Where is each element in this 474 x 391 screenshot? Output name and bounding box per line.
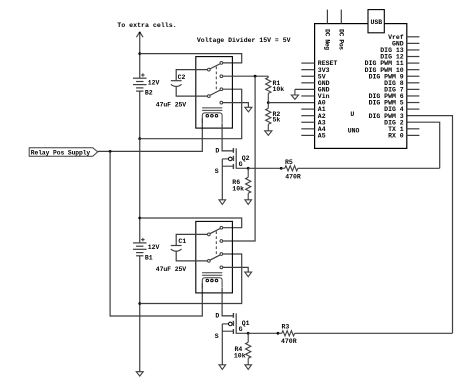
svg-text:10k: 10k xyxy=(232,186,244,193)
pin GND (left 5) wire xyxy=(295,88,315,90)
pin Vin (left 6) stub xyxy=(301,95,314,97)
capacitor C1 curved plate xyxy=(171,249,182,251)
wire junction rail down to K2 T1b xyxy=(223,76,255,241)
ground (R6 bottom) xyxy=(245,200,252,205)
relay K1 contact T1b xyxy=(220,75,223,78)
svg-text:Voltage Divider 15V = 5V: Voltage Divider 15V = 5V xyxy=(197,37,291,44)
svg-text:Q1: Q1 xyxy=(242,320,250,327)
capacitor C1 top plate xyxy=(171,245,182,247)
pin A1 (left 8) stub xyxy=(301,108,314,110)
svg-text:47uF 25V: 47uF 25V xyxy=(156,102,186,109)
relay K1 contact T1a xyxy=(220,62,223,65)
relay K2 contact T1a xyxy=(220,226,223,229)
node: R5 left junction xyxy=(280,167,283,170)
svg-text:RX 0: RX 0 xyxy=(388,132,404,139)
svg-text:Relay Pos Supply: Relay Pos Supply xyxy=(31,149,91,156)
svg-text:Q2: Q2 xyxy=(242,155,250,162)
svg-text:S: S xyxy=(215,333,219,340)
pin GND (left 4) stub xyxy=(301,82,314,84)
svg-text:12V: 12V xyxy=(148,79,160,86)
node: relay pos supply junction xyxy=(109,150,112,153)
wire Q1 source to ground xyxy=(221,324,223,365)
resistor R5 470R xyxy=(281,167,285,169)
arduino UNO U1 body xyxy=(315,24,407,149)
battery B1 12V xyxy=(133,242,147,244)
pin DIG 7 (right 9) stub xyxy=(407,88,420,90)
svg-text:G: G xyxy=(239,161,243,168)
pin A2 (left 9) stub xyxy=(301,115,314,117)
pin DIG PWM 6 (right 10) stub xyxy=(407,95,420,97)
resistor R4 10k xyxy=(247,333,249,342)
relay K1 contact common C2 xyxy=(208,95,211,98)
wire Q1 gate to R3 xyxy=(248,332,278,334)
wire B2- down to B1 + xyxy=(139,139,141,243)
relay K1 contact T2a xyxy=(220,88,223,91)
arrow up (to extra cells) xyxy=(136,32,143,37)
relay K1 contact T2b xyxy=(220,101,223,104)
pin DIG 4 (right 12) stub xyxy=(407,108,420,110)
wire Q2 gate to R5 xyxy=(248,167,281,169)
svg-text:10k: 10k xyxy=(234,352,246,359)
relay K1 box xyxy=(196,57,233,129)
pin GND (right 2) stub xyxy=(407,42,420,44)
relay K2 contact T2b xyxy=(220,266,223,269)
wire battery B1 - down to ground xyxy=(139,256,141,372)
node: battery B2 - junction xyxy=(138,137,141,140)
svg-text:G: G xyxy=(239,326,243,333)
pin DIG PWM 9 (right 7) stub xyxy=(407,75,420,77)
wire rail B1- to relay K2 coil / contact T2a xyxy=(140,254,242,304)
node: Q2 gate junction xyxy=(247,167,250,170)
pin A4 (left 11) stub xyxy=(301,128,314,130)
pin DIG PWM 10 (right 6) stub xyxy=(407,69,420,71)
relay K2 switch arm 1 xyxy=(210,228,221,233)
pin DIG PWM 5 (right 11) stub xyxy=(407,102,420,104)
ground (R2 bottom) xyxy=(265,131,272,136)
relay K1 coil xyxy=(202,107,222,109)
wire K2 T2b to ground xyxy=(223,267,249,272)
pin A5 (left 12) stub xyxy=(301,134,314,136)
capacitor C2 curved plate xyxy=(171,84,182,86)
wire relay pos supply to K1 coil left xyxy=(98,118,203,151)
wire K1 T1b to R1 xyxy=(223,75,269,77)
relay K2 contact T1b xyxy=(220,240,223,243)
svg-text:12V: 12V xyxy=(148,244,160,251)
wire feed to relay K1 contact T1a xyxy=(140,54,242,63)
relay K2 box xyxy=(196,221,233,293)
svg-text:DC Neg: DC Neg xyxy=(324,29,331,50)
arduino DC jack pin (pos) xyxy=(340,10,342,24)
svg-text:470R: 470R xyxy=(285,173,301,180)
pin DIG PWM 11 (right 5) stub xyxy=(407,62,420,64)
ground (battery rail bottom) xyxy=(136,372,143,376)
ground (Q2 source) xyxy=(219,200,226,205)
svg-text:S: S xyxy=(215,168,219,175)
svg-text:USB: USB xyxy=(371,19,383,26)
svg-text:5k: 5k xyxy=(273,117,281,124)
wire K1 T2b to ground xyxy=(223,103,249,108)
svg-text:U: U xyxy=(350,111,354,118)
pin A3 (left 10) stub xyxy=(301,121,314,123)
wire to extra cells (vertical from arrow to battery B2 +) xyxy=(139,32,141,78)
wire DIG 2 to R5 xyxy=(407,122,440,168)
node: R1/R2 junction (A0) xyxy=(267,101,270,104)
svg-text:10k: 10k xyxy=(273,86,285,93)
ground (K2 T2b) xyxy=(245,272,252,277)
node: battery B1 + junction xyxy=(138,217,141,220)
transistor Q1 (MOSFET) xyxy=(232,313,234,318)
resistor R1 10k xyxy=(267,76,269,77)
svg-text:47uF 25V: 47uF 25V xyxy=(156,266,186,273)
relay K2 contact common C2 xyxy=(208,260,211,263)
pin DIG 8 (right 8) stub xyxy=(407,82,420,84)
relay K1 switch arm 2 xyxy=(210,90,221,95)
svg-text:R3: R3 xyxy=(282,323,290,330)
svg-text:D: D xyxy=(215,148,219,155)
node: battery B1 - junction xyxy=(138,302,141,305)
svg-text:UNO: UNO xyxy=(348,128,360,135)
relay K1 contact common C1 xyxy=(208,68,211,71)
svg-text:R5: R5 xyxy=(285,159,293,166)
relay K2 switch arm 2 xyxy=(210,255,221,260)
svg-text:A5: A5 xyxy=(318,133,326,140)
svg-text:To extra cells.: To extra cells. xyxy=(117,22,176,29)
flag label: Relay Pos Supply xyxy=(29,148,98,157)
battery B2 12V xyxy=(133,77,147,79)
relay K2 contact T2a xyxy=(220,253,223,256)
svg-text:470R: 470R xyxy=(281,338,297,345)
resistor R6 10k xyxy=(247,168,249,177)
resistor R3 470R xyxy=(278,332,282,334)
wire relay pos supply rail down to K2 coil left xyxy=(110,151,202,316)
wire K2 common C1 to capacitor C1 + xyxy=(176,234,207,245)
ground (K1 T2b) xyxy=(245,107,252,112)
wire capacitor C2 - to K1 common C2 xyxy=(176,87,207,97)
wire capacitor C1 - to K2 common C2 xyxy=(176,251,207,261)
arduino USB box xyxy=(368,10,384,33)
pin 5V (left 3) stub xyxy=(301,75,314,77)
ground (GND pin) xyxy=(294,89,296,95)
transistor Q2 (MOSFET) xyxy=(232,148,234,153)
svg-text:DC Pos: DC Pos xyxy=(338,29,345,50)
node: battery B2 + junction xyxy=(138,52,141,55)
svg-text:C1: C1 xyxy=(178,238,186,245)
wire K2 coil right to Q1 drain xyxy=(222,288,233,316)
relay K1 switch arm 1 xyxy=(210,64,221,69)
arduino DC jack pin (neg) xyxy=(326,10,328,24)
pin TX 1 (right 15) stub xyxy=(407,128,420,130)
pin Vref (right 1) stub xyxy=(407,36,420,38)
resistor R2 5k xyxy=(267,103,269,109)
node: T1b/R1 junction xyxy=(254,75,257,78)
pin DIG 13 (right 3) stub xyxy=(407,49,420,51)
wire DIG PWM 3 to R3 xyxy=(407,116,453,334)
wire battery B2 - down to node xyxy=(139,91,141,139)
svg-text:B1: B1 xyxy=(145,254,153,261)
svg-text:C2: C2 xyxy=(178,74,186,81)
wire K1 coil right to Q2 drain xyxy=(222,123,233,151)
svg-text:B2: B2 xyxy=(145,90,153,97)
ground (Q1 source) xyxy=(219,365,226,370)
pin RX 0 (right 16) stub xyxy=(407,134,420,136)
wire Q2 source to ground xyxy=(221,159,223,200)
relay K1 link (dashed) xyxy=(215,67,217,93)
wire divider tap to A0 xyxy=(268,102,314,104)
relay K2 coil xyxy=(202,272,222,274)
capacitor C2 top plate xyxy=(171,80,182,82)
wire feed to relay K2 contact T1a xyxy=(140,218,242,228)
pin DIG 12 (right 4) stub xyxy=(407,56,420,58)
ground (R4 bottom) xyxy=(245,365,252,370)
svg-text:D: D xyxy=(215,313,219,320)
relay K2 contact common C1 xyxy=(208,233,211,236)
pin 3V3 (left 2) stub xyxy=(301,69,314,71)
node: Q1 gate junction xyxy=(247,332,250,335)
relay K2 link (dashed) xyxy=(215,231,217,257)
wire rail B2- to relay K1 coil / contact T2a xyxy=(140,89,242,139)
node: R3 left junction xyxy=(277,332,280,335)
pin RESET (left 1) stub xyxy=(301,62,314,64)
wire K1 common C1 to capacitor C2 + xyxy=(176,70,207,81)
